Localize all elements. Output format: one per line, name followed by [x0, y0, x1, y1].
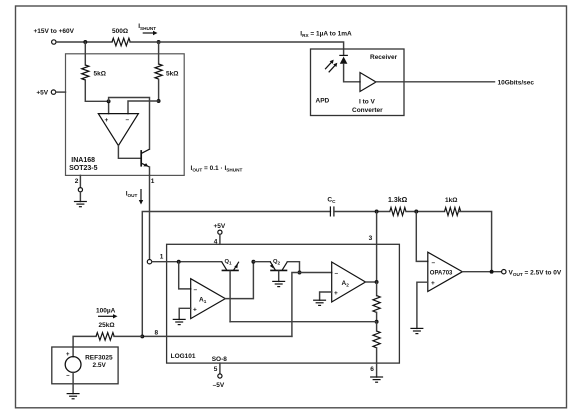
wire receiver output [376, 81, 495, 83]
svg-text:Q2: Q2 [273, 259, 281, 265]
terminal +5V [51, 90, 55, 94]
wire A1 plus to ground [179, 308, 191, 319]
wire node to Q2 [253, 261, 270, 263]
svg-text:–: – [335, 270, 339, 277]
op-amp OPA703 triangle [428, 252, 463, 291]
svg-text:–5V: –5V [213, 382, 225, 389]
transistor Q emitter [142, 163, 150, 167]
resistor R1 vertical [376, 282, 378, 296]
wire pin1 down to LOG input [149, 175, 151, 259]
wire inverting input [128, 101, 159, 114]
svg-text:I to V: I to V [359, 98, 376, 105]
wire C_C to 1.3k [334, 211, 390, 213]
svg-text:SOT23-5: SOT23-5 [69, 165, 98, 172]
wire diode to amp [344, 64, 360, 82]
arrow 100uA [98, 315, 114, 317]
LOG101 box [167, 244, 400, 363]
wire emitter to pin1 [149, 167, 151, 175]
ground A1 [173, 318, 186, 320]
capacitor C_C [329, 206, 331, 216]
resistor 1k [445, 208, 461, 216]
svg-text:3: 3 [369, 235, 373, 242]
wire node F to pin8 line [292, 273, 300, 337]
wire 1.3k to 1k [406, 211, 445, 213]
svg-text:VOUT = 2.5V to 0V: VOUT = 2.5V to 0V [509, 269, 562, 277]
node R1R2 junction [375, 320, 379, 324]
wire OPA plus to ground [417, 282, 428, 328]
svg-text:IRX = 1µA to 1mA: IRX = 1µA to 1mA [300, 30, 352, 38]
svg-text:100µA: 100µA [96, 307, 116, 314]
pin 4 stem [219, 234, 221, 244]
svg-text:8: 8 [155, 330, 159, 337]
svg-text:–: – [432, 260, 436, 267]
svg-text:+: + [431, 280, 435, 287]
node pin1 junction [177, 260, 181, 264]
light arrow 2 [329, 65, 335, 72]
wire rail right to receiver [130, 42, 344, 55]
pin 2 terminal [78, 188, 82, 192]
receiver box [311, 49, 405, 116]
svg-text:2.5V: 2.5V [93, 362, 107, 369]
wire REF to ground [72, 372, 74, 393]
node junction 1.3k/1k [414, 210, 418, 214]
svg-text:2: 2 [75, 178, 79, 185]
svg-text:5: 5 [214, 366, 218, 373]
wire Q2 base to ground [278, 271, 280, 281]
ground INA pin2 [79, 192, 81, 202]
node Q1Q2 junction [251, 260, 255, 264]
photodiode APD triangle [340, 57, 348, 64]
terminal LOG pin1 [147, 260, 151, 264]
node junction B [157, 40, 161, 44]
terminal +15V to +60V [52, 40, 56, 44]
ground A2 [313, 299, 326, 301]
wire A2 output [366, 281, 377, 283]
svg-text:10Gbits/sec: 10Gbits/sec [498, 79, 535, 86]
node output junction [490, 270, 494, 274]
transistor Q collector [142, 149, 150, 153]
op-amp A2 triangle [332, 262, 366, 302]
svg-text:1: 1 [160, 253, 164, 260]
wire node corner horizontal [142, 212, 330, 337]
svg-text:+15V to +60V: +15V to +60V [34, 28, 75, 35]
svg-text:INA168: INA168 [71, 157, 95, 164]
node E junction [140, 334, 144, 338]
svg-text:+: + [66, 352, 70, 358]
wire 25k to node E [114, 335, 142, 337]
wire U1 output to base [118, 146, 140, 159]
svg-text:APD: APD [316, 97, 330, 104]
terminal pin5 [218, 374, 222, 378]
svg-text:OPA703: OPA703 [430, 270, 453, 276]
svg-text:Receiver: Receiver [370, 54, 398, 61]
svg-text:SO-8: SO-8 [212, 356, 228, 363]
svg-text:REF3025: REF3025 [85, 355, 113, 362]
resistor 5k right [158, 42, 160, 64]
wire OPA output [462, 271, 501, 273]
wire to A1 inverting [179, 262, 191, 289]
wire Q2 collector [287, 262, 299, 273]
ground REF [67, 393, 80, 395]
op-amp A1 triangle [191, 279, 226, 319]
svg-text:5kΩ: 5kΩ [94, 70, 106, 77]
wire Q1 base down [229, 271, 231, 321]
svg-text:1kΩ: 1kΩ [445, 197, 457, 204]
svg-text:IOUT: IOUT [126, 190, 138, 198]
light arrow 1 [325, 62, 331, 69]
wire 5k left to opamp [85, 80, 108, 114]
arrow I_SHUNT [143, 32, 154, 34]
svg-text:–: – [126, 117, 130, 124]
wire node F to A2 [300, 272, 332, 274]
pin 5 stem [219, 363, 221, 374]
svg-text:CC: CC [327, 197, 336, 205]
svg-text:–: – [66, 373, 70, 379]
svg-text:+: + [193, 306, 197, 313]
wire A2 plus to ground [320, 292, 332, 300]
op-amp U1 triangle [98, 114, 138, 146]
node pin3 top [375, 210, 379, 214]
REF3025 box [52, 347, 118, 384]
ground Q2 [272, 280, 285, 282]
svg-text:A2: A2 [342, 280, 350, 288]
svg-text:–: – [194, 287, 198, 294]
node junction D [157, 99, 161, 103]
svg-text:1: 1 [151, 178, 155, 185]
svg-text:6: 6 [370, 366, 374, 373]
wire +5V [56, 91, 66, 93]
pin 6 stem [376, 363, 378, 377]
svg-text:Q1: Q1 [225, 259, 233, 265]
svg-text:1.3kΩ: 1.3kΩ [388, 197, 408, 204]
wire feedback collector [109, 98, 150, 150]
svg-text:+: + [334, 290, 338, 297]
arrow I_OUT [140, 189, 142, 201]
wire A1 output up [225, 262, 253, 299]
svg-text:IOUT = 0.1 · ISHUNT: IOUT = 0.1 · ISHUNT [191, 165, 243, 173]
ground OPA703 [410, 327, 423, 329]
svg-text:5kΩ: 5kΩ [166, 70, 178, 77]
resistor 5k left [84, 42, 86, 65]
svg-text:+5V: +5V [36, 90, 48, 97]
svg-text:LOG101: LOG101 [171, 353, 196, 360]
wire 5k right down [158, 80, 160, 102]
svg-text:4: 4 [214, 238, 218, 245]
wire 1k to output node [459, 212, 492, 272]
node junction A [83, 40, 87, 44]
svg-text:ISHUNT: ISHUNT [138, 23, 156, 31]
svg-text:25kΩ: 25kΩ [99, 322, 115, 329]
svg-text:+: + [105, 117, 109, 124]
svg-text:500Ω: 500Ω [112, 28, 128, 35]
wire pin3 vertical [376, 212, 378, 283]
terminal VOUT [502, 270, 506, 274]
node junction C [107, 99, 111, 103]
INA168 box [66, 54, 185, 176]
svg-text:Converter: Converter [352, 107, 383, 114]
resistor R2 vertical [376, 322, 378, 331]
resistor 25k [96, 333, 114, 341]
wire pin1 into box [152, 261, 222, 263]
node A2 out [375, 280, 379, 284]
wire rail left [56, 41, 112, 43]
svg-text:+5V: +5V [214, 223, 226, 230]
wire pin8 [142, 335, 292, 337]
ground pin6 [370, 376, 383, 378]
I-to-V amp triangle [360, 73, 376, 92]
source circle REF3025 [65, 357, 81, 373]
resistor 500ohm [112, 38, 130, 46]
wire Q1 base to divider [230, 321, 377, 323]
resistor 1.3k [390, 208, 406, 216]
pin 2 stem [79, 175, 81, 187]
terminal pin4 [218, 230, 222, 234]
wire REF to resistor [73, 336, 96, 356]
wire node to OPA inverting [416, 212, 428, 262]
node F junction [298, 271, 302, 275]
transistor Q bar [140, 150, 142, 167]
svg-text:A1: A1 [199, 297, 207, 305]
photodiode APD cathode bar [339, 54, 348, 56]
